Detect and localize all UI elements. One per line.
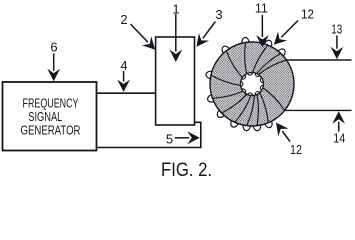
svg-text:11: 11 [255, 1, 268, 16]
svg-text:13: 13 [331, 22, 342, 37]
svg-text:3: 3 [215, 7, 222, 22]
svg-text:GENERATOR: GENERATOR [21, 123, 81, 138]
svg-text:4: 4 [120, 58, 127, 73]
svg-text:12: 12 [301, 7, 314, 22]
svg-text:2: 2 [120, 12, 127, 27]
svg-text:1: 1 [172, 2, 179, 17]
svg-text:6: 6 [50, 40, 57, 55]
svg-text:FIG. 2.: FIG. 2. [161, 160, 212, 181]
svg-text:5: 5 [166, 132, 173, 147]
svg-text:14: 14 [333, 131, 345, 146]
svg-text:12: 12 [290, 142, 302, 157]
